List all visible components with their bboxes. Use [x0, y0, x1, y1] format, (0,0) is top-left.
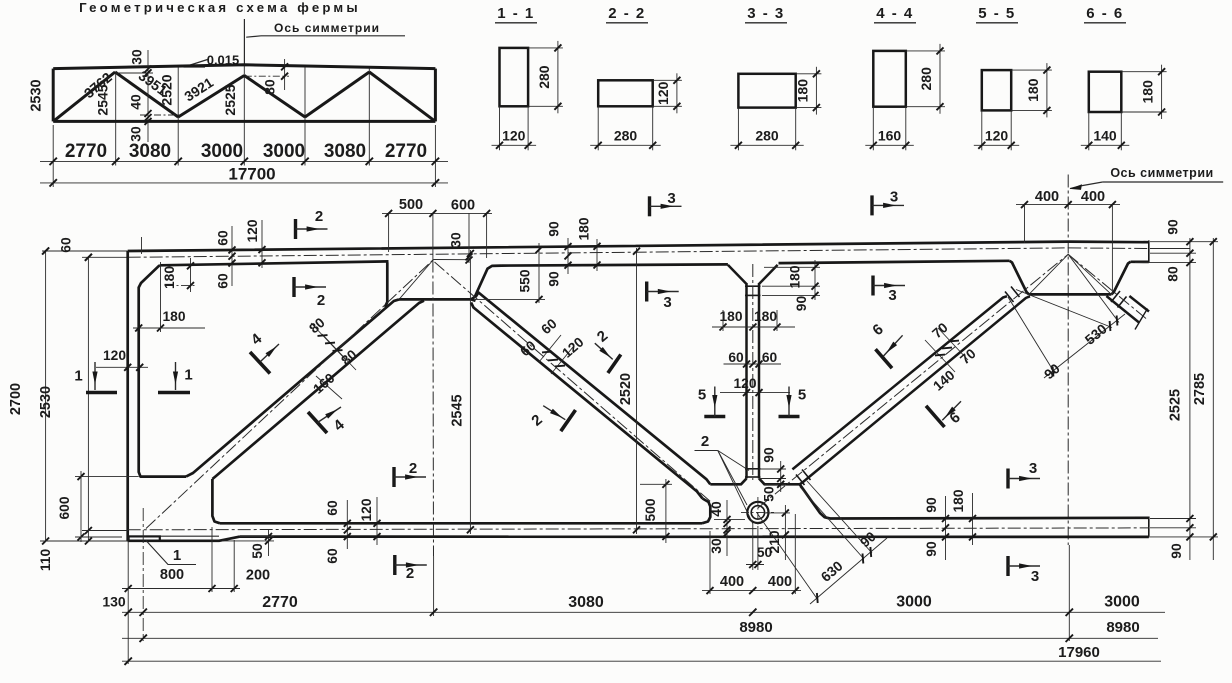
svg-text:40: 40 [709, 501, 724, 517]
scheme dimension row: panel lengths [40, 160, 448, 162]
scheme diagonal mirror 3951 [305, 72, 369, 117]
panel 1 top chord bottom edge [160, 261, 389, 265]
diagonal 3 centreline [758, 254, 1068, 508]
section 4 - 4 outline [873, 51, 906, 107]
left end post inner edge with chamfer [139, 265, 186, 476]
svg-text:120: 120 [502, 127, 526, 143]
svg-text:180: 180 [754, 309, 777, 324]
svg-text:3000: 3000 [1104, 594, 1140, 611]
svg-text:2: 2 [701, 433, 709, 450]
svg-text:2: 2 [317, 292, 325, 309]
svg-text:Геометрическая схема фермы: Геометрическая схема фермы [79, 0, 361, 15]
panel 3 top chord bottom edge [779, 261, 1010, 263]
dim 70/70/140 on diagonal 3 [925, 340, 955, 372]
svg-text:400: 400 [1035, 189, 1059, 205]
svg-text:3000: 3000 [896, 594, 932, 611]
vertical post right edge [758, 283, 761, 479]
dim 120 post width [720, 392, 790, 394]
svg-text:60: 60 [59, 237, 74, 253]
svg-text:1: 1 [173, 547, 181, 564]
svg-text:120: 120 [245, 219, 260, 242]
dim 2785 right edge outer [1212, 238, 1214, 560]
dim 600 panel opening height [80, 471, 82, 542]
dim 60/60/120 on diagonal 2 [539, 335, 561, 362]
dim 50 hole offset [752, 556, 754, 570]
svg-text:80: 80 [263, 79, 278, 95]
svg-text:2 - 2: 2 - 2 [608, 5, 646, 22]
svg-text:17960: 17960 [1058, 644, 1100, 661]
svg-text:60: 60 [216, 230, 231, 246]
diagonal 4 cut end [1135, 309, 1148, 330]
svg-text:180: 180 [1025, 78, 1041, 102]
svg-text:600: 600 [451, 198, 475, 214]
scheme diagonal mirror 3921 [244, 76, 305, 118]
svg-text:90: 90 [924, 541, 939, 557]
svg-text:500: 500 [643, 498, 658, 521]
dim 2545 between chords [469, 250, 471, 534]
top chord bottom edge right of ridge [1131, 260, 1149, 263]
post top splice lines [745, 285, 761, 287]
svg-text:1 - 1: 1 - 1 [497, 5, 535, 22]
diagonal 4 centreline [1068, 254, 1146, 318]
dim 2530 height to centreline [87, 257, 89, 541]
ridge node right chamfer [1111, 262, 1130, 295]
dim 200 [216, 588, 240, 590]
row 17960 [122, 660, 1161, 662]
dim 800 support to web [122, 588, 216, 590]
svg-text:400: 400 [768, 574, 792, 590]
bottom chord support top thin line [128, 535, 219, 537]
left end post outer edge [126, 251, 129, 541]
svg-text:800: 800 [160, 567, 184, 583]
svg-text:130: 130 [102, 594, 126, 610]
post top chamfer left [728, 265, 747, 284]
svg-text:400: 400 [1081, 189, 1105, 205]
scheme top chord [53, 65, 435, 69]
svg-text:2: 2 [409, 460, 417, 477]
support block vertical edge [212, 479, 220, 523]
node 1 right chamfer to chord [471, 266, 502, 300]
svg-text:4 - 4: 4 - 4 [876, 5, 914, 22]
svg-text:2770: 2770 [262, 594, 298, 611]
section 2 - 2 width dim 280 [597, 106, 599, 150]
svg-text:280: 280 [755, 127, 779, 143]
bearing plate detail 1 [129, 536, 160, 540]
svg-text:60: 60 [325, 548, 340, 564]
panel 2 top chord bottom edge [502, 264, 728, 265]
section flag 5 right of post [779, 415, 800, 418]
svg-text:120: 120 [733, 376, 756, 391]
svg-text:40: 40 [128, 94, 143, 110]
post bottom splice lines [745, 468, 761, 470]
svg-text:8980: 8980 [739, 619, 772, 636]
svg-text:30: 30 [128, 126, 143, 142]
svg-text:90: 90 [794, 296, 809, 312]
dim 120 end post width [96, 366, 148, 368]
dim 60/120/60 bottom chord [346, 500, 348, 549]
dim 630/90 at bottom node diagonal [757, 513, 818, 600]
dim 550 node 1 depth [538, 243, 540, 303]
svg-text:400: 400 [720, 574, 744, 590]
node 1 bottom edge [399, 299, 476, 301]
bottom chord top edge right span [830, 516, 1149, 519]
section flag 2 bottom upper [392, 467, 395, 487]
section flag 3 pair bottom right [1006, 469, 1009, 489]
section flag 6 lower on diagonal 3 [926, 406, 945, 427]
diagonal 1 centreline [146, 260, 434, 529]
hole cross centrelines [741, 511, 774, 513]
lifting hole outer circle [747, 502, 768, 523]
panel 1 opening right edge [385, 263, 387, 308]
dim 400/400 under bottom node [702, 590, 801, 592]
dim 90/90 and 180 bottom chord right [945, 496, 947, 560]
diagonal 2 lower edge [471, 303, 703, 499]
svg-text:2520: 2520 [618, 373, 634, 405]
svg-text:5: 5 [798, 387, 806, 404]
dim 500 right node height [665, 479, 667, 543]
svg-text:3: 3 [888, 287, 896, 304]
dim 80/80/160 on diagonal 1 [311, 323, 345, 359]
ridge node left chamfer [1010, 261, 1029, 295]
svg-text:200: 200 [246, 568, 270, 584]
dim 500/600 above node 1 [382, 212, 492, 214]
svg-text:5: 5 [698, 387, 706, 404]
dim 60/60 post halves [724, 363, 782, 365]
dim 90/90 and 180 top chord panel 2 [567, 238, 569, 274]
section flag 1 left [86, 391, 117, 394]
svg-text:50: 50 [250, 543, 265, 559]
top chord top edge extension left [42, 250, 128, 252]
svg-text:3000: 3000 [201, 141, 243, 162]
svg-text:140: 140 [1093, 127, 1117, 143]
vertical post left edge [745, 283, 748, 479]
section 6 - 6 width dim 140 [1088, 112, 1090, 150]
bottom chord support underside [128, 537, 240, 541]
svg-text:6 - 6: 6 - 6 [1086, 5, 1124, 22]
svg-text:3: 3 [663, 294, 671, 311]
svg-text:180: 180 [1140, 80, 1156, 104]
svg-text:60: 60 [216, 273, 231, 289]
scheme diagonal mirror 3762 [369, 72, 435, 121]
svg-text:2785: 2785 [1192, 373, 1208, 405]
svg-text:180: 180 [162, 309, 185, 324]
section 2 - 2 height dim 120 [653, 79, 682, 81]
section 2 - 2 outline [598, 80, 653, 106]
svg-text:3080: 3080 [324, 141, 366, 162]
svg-text:2545: 2545 [94, 84, 110, 115]
svg-text:120: 120 [359, 498, 374, 521]
scheme dimension row: overall 17700 [40, 182, 448, 184]
svg-text:2530: 2530 [29, 79, 45, 111]
svg-text:3: 3 [1031, 568, 1039, 585]
dim 180 end post chamfer horizontal [133, 327, 205, 329]
section flag 2 lower on diagonal 2 [561, 410, 576, 431]
bottom chord cut end [1148, 517, 1150, 538]
section flag 2 bottom lower [393, 555, 396, 575]
svg-text:110: 110 [38, 549, 53, 572]
svg-text:600: 600 [57, 496, 72, 519]
svg-text:30: 30 [130, 49, 145, 65]
bearing axis line [142, 508, 144, 641]
svg-text:2770: 2770 [65, 141, 107, 162]
svg-text:3 - 3: 3 - 3 [747, 5, 785, 22]
symmetry axis line [1067, 175, 1069, 546]
ridge node bottom edge [1029, 293, 1112, 296]
svg-text:180: 180 [794, 79, 810, 103]
scheme extension lines to dimension rows [52, 125, 54, 187]
dim 90/50 post bottom right [759, 468, 786, 470]
svg-text:280: 280 [536, 65, 552, 89]
svg-text:180: 180 [577, 217, 592, 240]
dim 110 support depth [85, 538, 92, 545]
svg-text:280: 280 [918, 67, 934, 91]
ridge apex fan lines [1029, 254, 1068, 294]
section 1 - 1 width dim 120 [499, 106, 501, 150]
diagonal 4 upper edge (cut) [1129, 296, 1149, 312]
section flag 1 right [158, 391, 190, 394]
scheme left post [52, 69, 55, 122]
svg-text:60: 60 [728, 350, 744, 365]
svg-text:3: 3 [1029, 460, 1037, 477]
section 5 - 5 width dim 120 [981, 110, 983, 150]
scheme right post [434, 69, 437, 122]
svg-text:180: 180 [162, 266, 177, 289]
section flag 6 upper on diagonal 3 [876, 349, 893, 368]
svg-text:50: 50 [762, 486, 777, 502]
svg-text:2530: 2530 [38, 386, 54, 418]
dim 180/180 post flanks [712, 326, 795, 328]
diagonal 1 lower edge [212, 301, 424, 479]
row 8980/8980 [122, 637, 1158, 639]
dim 2520 between chords [636, 248, 638, 534]
diagonal 4 lower edge (cut) [1106, 296, 1139, 323]
row 130/2770/3080/3000/3000 [122, 611, 1165, 613]
left edge extension to rows [127, 541, 129, 664]
section 4 - 4 height dim 280 [906, 50, 945, 52]
section flag 5 left of post [704, 415, 725, 418]
svg-text:550: 550 [518, 269, 533, 292]
bottom chord centreline [128, 528, 1149, 530]
svg-text:17700: 17700 [228, 165, 275, 184]
svg-text:2770: 2770 [385, 141, 427, 162]
svg-text:2: 2 [315, 208, 323, 225]
bottom chord top edge left span [220, 522, 702, 525]
svg-text:280: 280 [614, 127, 638, 143]
scheme bottom chord [53, 120, 435, 123]
svg-text:180: 180 [951, 489, 966, 512]
scheme diagonal 3921 [178, 76, 244, 118]
section 1 - 1 outline [500, 48, 529, 106]
section flag 3 pair x=872 [870, 195, 873, 215]
diagonal 2 centreline [435, 262, 712, 502]
right edge extension lines [1150, 241, 1218, 243]
svg-text:120: 120 [103, 348, 126, 363]
lifting hole inner circle [751, 506, 764, 519]
section 5 - 5 outline [982, 70, 1011, 110]
dim 530/90 at ridge diagonal [1068, 254, 1119, 322]
dim 2700 overall height [45, 251, 47, 541]
section flag 2 top upper [294, 219, 297, 239]
bottom node left vertical edge [702, 499, 710, 524]
svg-text:8980: 8980 [1106, 619, 1139, 636]
svg-text:160: 160 [878, 127, 902, 143]
section 6 - 6 height dim 180 [1121, 71, 1166, 73]
svg-text:60: 60 [325, 500, 340, 516]
diagonal 3 lower edge [800, 296, 1030, 484]
svg-text:2: 2 [406, 565, 414, 582]
svg-text:3000: 3000 [263, 141, 305, 162]
diagonal 4 splice lines [1111, 291, 1120, 302]
dim 210 right of hole [784, 505, 786, 560]
svg-text:180: 180 [788, 265, 803, 288]
section flag 2 upper on diagonal 2 [608, 355, 621, 374]
svg-text:120: 120 [655, 81, 671, 105]
diagonal 2 upper edge [476, 293, 711, 485]
scheme node verticals [115, 73, 117, 166]
section flag 4 upper on diagonal 1 [250, 352, 270, 374]
svg-text:90: 90 [547, 221, 562, 237]
node 1 apex fan lines [399, 260, 434, 300]
post bottom chamfers and node shoulders [710, 479, 746, 485]
svg-text:5 - 5: 5 - 5 [978, 5, 1016, 22]
svg-text:2700: 2700 [8, 383, 24, 415]
svg-text:1: 1 [184, 367, 192, 384]
section flag 4 lower on diagonal 1 [308, 412, 327, 433]
svg-text:30: 30 [449, 232, 464, 248]
diagonal 3 splice lines [796, 475, 805, 486]
dim 400/400 at ridge [1016, 204, 1120, 206]
dim 180 end post detail vertical [190, 258, 192, 292]
svg-text:80: 80 [1166, 266, 1181, 282]
bottom chord bottom edge [240, 535, 1149, 538]
svg-text:Ось симметрии: Ось симметрии [1110, 166, 1213, 180]
dim 60/120/60 top chord panel 1 [231, 226, 233, 286]
diagonal 3 upper edge [792, 296, 1007, 469]
section 5 - 5 height dim 180 [1011, 69, 1052, 71]
svg-text:500: 500 [399, 197, 423, 213]
svg-text:2520: 2520 [158, 74, 174, 105]
dim 180/90 at post top splice [764, 266, 820, 268]
svg-text:90: 90 [547, 271, 562, 287]
svg-text:1: 1 [74, 368, 82, 385]
svg-text:50: 50 [757, 545, 773, 560]
dim 90/80/2525 right edge [1189, 238, 1191, 560]
top chord centreline [82, 256, 128, 258]
diagonal 1 upper edge [186, 299, 399, 476]
svg-text:120: 120 [985, 127, 1009, 143]
svg-text:3080: 3080 [568, 594, 604, 611]
svg-text:3: 3 [890, 189, 898, 206]
dim 40 / 30 left of hole [726, 500, 728, 556]
slope mark 0.015 [184, 60, 208, 68]
section 3 - 3 height dim 180 [796, 73, 822, 75]
svg-text:30: 30 [709, 538, 724, 554]
dim 50 chord step [268, 530, 270, 556]
svg-text:2545: 2545 [450, 394, 466, 426]
svg-text:Ось симметрии: Ось симметрии [274, 21, 380, 35]
scheme diagonal 3762 [53, 72, 115, 121]
svg-text:90: 90 [1166, 219, 1181, 235]
post top chamfer right [759, 265, 778, 284]
top chord top edge [128, 242, 1149, 251]
section 3 - 3 width dim 280 [737, 108, 739, 151]
section 3 - 3 outline [738, 74, 795, 108]
bottom node right slope [800, 484, 830, 518]
section 6 - 6 outline [1089, 72, 1122, 112]
section flag 2 top lower [292, 277, 295, 297]
section flag 3 pair x=650 [648, 196, 651, 216]
section 4 - 4 width dim 160 [872, 107, 874, 151]
vertical post centreline [752, 264, 754, 480]
top chord cut end [1148, 240, 1150, 263]
svg-text:60: 60 [762, 350, 778, 365]
svg-text:90: 90 [924, 497, 939, 513]
svg-text:3080: 3080 [129, 141, 171, 162]
callout 1 bearing plate leader [146, 541, 196, 565]
svg-text:2525: 2525 [1168, 389, 1184, 421]
svg-text:90: 90 [762, 447, 777, 463]
svg-text:3: 3 [667, 190, 675, 207]
svg-text:90: 90 [1169, 543, 1184, 559]
scheme diagonal 3951 [115, 72, 178, 117]
section 1 - 1 height dim 280 [528, 47, 563, 49]
svg-text:2525: 2525 [222, 84, 238, 115]
